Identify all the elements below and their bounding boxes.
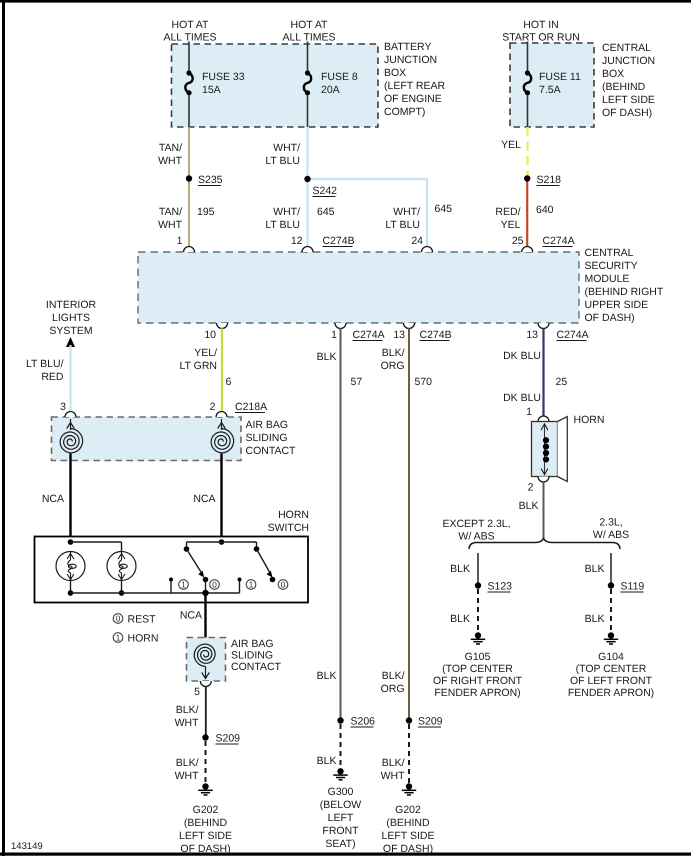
svg-text:BLK: BLK [585, 613, 605, 625]
pin 24 label [411, 235, 423, 247]
svg-text:7.5A: 7.5A [539, 84, 561, 96]
svg-text:AIR BAG: AIR BAG [231, 638, 274, 650]
svg-text:640: 640 [536, 204, 554, 216]
svg-text:HORN: HORN [574, 414, 605, 426]
svg-text:C274A: C274A [543, 235, 575, 247]
svg-text:OF DASH): OF DASH) [383, 843, 433, 855]
svg-text:OF ENGINE: OF ENGINE [384, 93, 442, 105]
label NCA lower [180, 610, 202, 622]
svg-text:FUSE 33: FUSE 33 [202, 71, 245, 83]
svg-text:LT BLU/: LT BLU/ [26, 358, 64, 370]
label G104 [568, 651, 654, 699]
fuse F11 [524, 70, 531, 95]
svg-text:DK BLU: DK BLU [503, 392, 541, 404]
svg-text:G300: G300 [328, 786, 354, 798]
wire BLK S123 to G105 [477, 589, 479, 632]
horn switch box [35, 537, 309, 603]
ground G202 left [198, 783, 212, 795]
svg-text:SEAT): SEAT) [325, 838, 355, 850]
label YEL/LT GRN + 6 [179, 347, 231, 388]
label 2.3L W/ ABS [593, 517, 629, 542]
horn coil symbol left [56, 552, 85, 581]
svg-text:S123: S123 [488, 581, 513, 593]
wire WHT/LT BLU branch S242 to pin24 [308, 178, 428, 247]
svg-text:1: 1 [177, 235, 183, 247]
svg-text:S209: S209 [418, 716, 443, 728]
label air bag sliding contact upper [246, 419, 297, 457]
svg-text:NCA: NCA [180, 610, 202, 622]
contact 0 right [270, 577, 276, 583]
contact 1 stub right [238, 578, 242, 594]
svg-text:HOT AT: HOT AT [172, 19, 210, 31]
wire TAN/WHT S235 to pin1 [188, 179, 190, 247]
svg-text:BLK/: BLK/ [382, 670, 405, 682]
module bottom pin bumps [217, 323, 550, 329]
label HORN [574, 414, 605, 426]
label central security module [585, 247, 664, 324]
ground G104 [604, 632, 618, 644]
contact 0 left [202, 577, 208, 597]
wire fuse 33 to box edge [188, 95, 190, 127]
label G202 left [179, 804, 232, 855]
svg-text:SLIDING: SLIDING [231, 650, 273, 662]
legend 0 REST [113, 614, 156, 626]
svg-text:BLK: BLK [317, 351, 337, 363]
svg-text:(BEHIND: (BEHIND [386, 817, 430, 829]
label BLK + 57 [317, 351, 363, 388]
junction dot left feed [68, 539, 74, 545]
junction dot right feed [219, 539, 225, 545]
svg-text:LT BLU: LT BLU [385, 219, 420, 231]
pin 3 label [60, 401, 66, 413]
wire BLK brace to S123 [477, 553, 479, 583]
splice S218 [524, 174, 561, 186]
ground G300 [333, 768, 347, 780]
svg-text:EXCEPT 2.3L,: EXCEPT 2.3L, [442, 518, 510, 530]
svg-text:LEFT: LEFT [328, 812, 354, 824]
wires horn coils to bus [68, 580, 125, 596]
svg-text:570: 570 [415, 376, 433, 388]
air bag sliding contact box lower [187, 638, 226, 682]
svg-text:C274B: C274B [420, 329, 452, 341]
air bag sliding contact box upper [52, 417, 242, 461]
svg-text:C274A: C274A [353, 329, 385, 341]
label BLK/WHT lower left [175, 757, 199, 782]
svg-text:OF DASH): OF DASH) [585, 312, 635, 324]
contact pin bumps upper [65, 412, 227, 418]
pin 1 label horn [526, 406, 532, 418]
svg-text:10: 10 [204, 329, 216, 341]
svg-text:BLK: BLK [450, 613, 470, 625]
svg-text:LT GRN: LT GRN [179, 360, 217, 372]
svg-text:HOT IN: HOT IN [523, 19, 558, 31]
label air bag sliding contact lower [231, 638, 282, 673]
wire YEL/LT GRN pin10 to contact [221, 328, 223, 411]
label BLK lower [317, 670, 337, 682]
svg-text:WHT: WHT [158, 155, 182, 167]
svg-text:13: 13 [526, 329, 538, 341]
splice S209 left [202, 733, 240, 745]
horn component [532, 417, 568, 482]
svg-text:CENTRAL: CENTRAL [585, 247, 634, 259]
ground G202 right [402, 783, 416, 795]
wire NCA right [220, 454, 222, 543]
svg-text:WHT: WHT [175, 770, 199, 782]
svg-text:FRONT: FRONT [322, 825, 359, 837]
svg-text:WHT/: WHT/ [273, 206, 300, 218]
svg-text:13: 13 [393, 329, 405, 341]
svg-text:BOX: BOX [602, 68, 624, 80]
label RED/YEL + 640 [495, 204, 553, 231]
label horn switch [268, 509, 309, 534]
svg-text:C218A: C218A [235, 401, 267, 413]
label HOT AT ALL TIMES (left) [163, 19, 216, 44]
svg-text:2.3L,: 2.3L, [599, 517, 622, 529]
sliding contact coil lower [194, 644, 215, 678]
svg-text:OF DASH): OF DASH) [180, 843, 230, 855]
svg-text:DK BLU: DK BLU [503, 350, 541, 362]
label BLK/WHT upper left [175, 704, 199, 729]
svg-text:REST: REST [128, 614, 157, 626]
svg-text:SWITCH: SWITCH [268, 522, 309, 534]
svg-text:SLIDING: SLIDING [246, 432, 288, 444]
svg-text:12: 12 [291, 235, 303, 247]
splice S123 [475, 581, 512, 593]
svg-text:FUSE 11: FUSE 11 [539, 71, 581, 83]
label G202 right [382, 804, 435, 855]
svg-text:HORN: HORN [128, 633, 159, 645]
switch top link right [187, 542, 260, 552]
svg-text:BLK: BLK [450, 563, 470, 575]
wire BLK/WHT contact to S209 [205, 687, 207, 738]
svg-text:S218: S218 [537, 174, 562, 186]
wire fuse 8 to box edge [307, 95, 309, 127]
svg-text:YEL: YEL [501, 219, 521, 231]
svg-text:5: 5 [194, 686, 200, 698]
switch arm left [184, 542, 205, 578]
svg-text:BLK: BLK [317, 755, 337, 767]
label EXCEPT 2.3L W/ ABS [442, 518, 510, 543]
svg-text:FUSE 8: FUSE 8 [321, 71, 358, 83]
svg-text:0: 0 [116, 614, 121, 624]
svg-text:195: 195 [197, 206, 215, 218]
horn pin bump bottom [538, 477, 549, 483]
svg-text:0: 0 [281, 580, 286, 590]
svg-text:WHT/: WHT/ [393, 206, 420, 218]
svg-text:S209: S209 [216, 733, 241, 745]
wire WHT/LT BLU S242 to pin12 [306, 179, 308, 247]
position label 1 right [246, 580, 256, 590]
svg-text:C274A: C274A [557, 329, 589, 341]
label YEL [501, 139, 521, 151]
svg-text:(LEFT REAR: (LEFT REAR [384, 80, 445, 92]
svg-text:S242: S242 [313, 185, 338, 197]
svg-text:BLK/: BLK/ [176, 757, 199, 769]
label BLK above G104 [585, 613, 605, 625]
label WHT/LT BLU upper [265, 142, 300, 167]
svg-text:HOT AT: HOT AT [291, 19, 329, 31]
label G300 [320, 786, 362, 850]
pin 13 label C274B bottom [393, 329, 451, 341]
svg-text:OF LEFT FRONT: OF LEFT FRONT [570, 675, 653, 687]
central security module box [138, 252, 579, 323]
module top pin bumps [184, 247, 533, 252]
label WHT/LT BLU pin24 + 645 [385, 203, 452, 231]
label battery junction box [384, 41, 445, 118]
svg-text:15A: 15A [202, 84, 221, 96]
label NCA right [193, 493, 215, 505]
svg-text:CONTACT: CONTACT [231, 661, 282, 673]
svg-text:FENDER APRON): FENDER APRON) [434, 687, 520, 699]
svg-text:OF RIGHT FRONT: OF RIGHT FRONT [433, 675, 523, 687]
wire YEL fuse11 to S218 [526, 127, 528, 176]
svg-text:S119: S119 [621, 581, 645, 593]
svg-text:MODULE: MODULE [585, 273, 630, 285]
sliding contact coil right [211, 419, 234, 453]
svg-text:2: 2 [210, 401, 216, 413]
arrow to interior lights system [66, 337, 75, 347]
svg-text:57: 57 [351, 376, 363, 388]
pin 12 label C274B top [291, 235, 355, 247]
pin 2 label C218A [210, 401, 267, 413]
svg-text:ORG: ORG [381, 683, 405, 695]
svg-text:1: 1 [116, 633, 121, 643]
sliding contact coil left [60, 419, 83, 453]
wire fuse 11 to box edge [527, 95, 529, 127]
svg-text:G104: G104 [598, 651, 624, 663]
svg-text:BLK: BLK [519, 500, 539, 512]
label interior lights system [46, 299, 97, 337]
label DK BLU + 25 [503, 350, 567, 404]
label BLK/ORG lower [381, 670, 405, 695]
svg-text:(TOP CENTER: (TOP CENTER [576, 663, 647, 675]
label FUSE 8 20A [321, 71, 358, 96]
horn pin bump top [538, 416, 549, 421]
svg-text:(TOP CENTER: (TOP CENTER [442, 663, 513, 675]
svg-text:LT BLU: LT BLU [265, 155, 300, 167]
svg-text:(BEHIND: (BEHIND [184, 817, 228, 829]
switch bus wire [71, 592, 240, 594]
wire feed into fuse 11 [527, 42, 529, 72]
pin 25 label C274A top [512, 235, 575, 247]
svg-text:UPPER SIDE: UPPER SIDE [585, 299, 649, 311]
svg-text:AIR BAG: AIR BAG [246, 419, 289, 431]
label BLK below horn [519, 500, 539, 512]
svg-text:CONTACT: CONTACT [246, 445, 297, 457]
svg-text:SYSTEM: SYSTEM [49, 325, 92, 337]
fuse F33 [185, 70, 192, 95]
wire BLK horn to brace [543, 482, 545, 539]
svg-text:WHT/: WHT/ [273, 142, 300, 154]
splice S209 right [406, 716, 443, 728]
wire feed into fuse 8 [307, 42, 309, 72]
svg-text:G105: G105 [465, 651, 491, 663]
svg-text:TAN/: TAN/ [159, 206, 182, 218]
svg-text:G202: G202 [395, 804, 421, 816]
svg-text:25: 25 [556, 376, 568, 388]
position label 0 left [210, 580, 220, 590]
svg-text:WHT: WHT [175, 717, 199, 729]
svg-text:RED: RED [41, 371, 64, 383]
svg-text:RED/: RED/ [495, 206, 520, 218]
svg-text:G202: G202 [193, 804, 219, 816]
svg-text:CENTRAL: CENTRAL [602, 42, 651, 54]
horn coil symbol right [107, 552, 136, 581]
wire BLK S119 to G104 [610, 589, 612, 632]
pin 13 label C274A bottom right [526, 329, 588, 341]
svg-text:1: 1 [181, 580, 186, 590]
svg-text:LIGHTS: LIGHTS [52, 312, 90, 324]
label HOT AT ALL TIMES (middle) [282, 19, 335, 44]
battery junction box [172, 44, 379, 127]
wire NCA left [69, 454, 71, 553]
label G105 [433, 651, 523, 699]
svg-text:0: 0 [212, 580, 217, 590]
position label 0 right [278, 580, 288, 590]
svg-text:TAN/: TAN/ [159, 142, 182, 154]
label FUSE 33 15A [202, 71, 245, 96]
label BLK above S119 [585, 563, 605, 575]
fuse F8 [304, 70, 311, 95]
svg-text:WHT: WHT [158, 219, 182, 231]
ground G105 [471, 632, 485, 644]
contact 1 stub left [169, 578, 173, 594]
svg-text:25: 25 [512, 235, 524, 247]
label central junction box [602, 42, 655, 119]
svg-text:BLK: BLK [585, 563, 605, 575]
svg-text:COMPT): COMPT) [384, 106, 425, 118]
svg-text:143149: 143149 [11, 841, 43, 852]
central junction box [510, 43, 594, 127]
label BLK/WHT right column [381, 757, 405, 782]
svg-text:ALL TIMES: ALL TIMES [163, 32, 216, 44]
wire TAN/WHT fuse33 to S235 [188, 127, 190, 179]
pin 5 label [194, 686, 200, 698]
svg-text:YEL/: YEL/ [194, 347, 217, 359]
svg-text:FENDER APRON): FENDER APRON) [568, 687, 654, 699]
pin 1 label C274A top [177, 235, 183, 247]
label BLK above G300 [317, 755, 337, 767]
wire LT BLU/RED [69, 345, 71, 412]
label TAN/WHT upper [158, 142, 182, 167]
svg-text:BLK/: BLK/ [176, 704, 199, 716]
wire link horns [71, 542, 122, 552]
svg-text:LT BLU: LT BLU [265, 219, 300, 231]
wire BLK S206 to G300 [340, 724, 342, 768]
legend 1 HORN [113, 633, 158, 645]
svg-text:645: 645 [435, 203, 453, 215]
svg-text:LEFT SIDE: LEFT SIDE [602, 94, 655, 106]
svg-text:C274B: C274B [323, 235, 355, 247]
label BLK above S123 [450, 563, 470, 575]
svg-text:S206: S206 [351, 716, 376, 728]
wire BLK/WHT S209 to G202 right [408, 724, 410, 783]
wire WHT/LT BLU fuse8 to S242 [306, 127, 308, 179]
svg-text:(BEHIND: (BEHIND [602, 81, 646, 93]
position label 1 left [179, 580, 189, 590]
svg-text:NCA: NCA [193, 493, 215, 505]
pin 2 label horn [528, 482, 534, 494]
svg-text:LEFT SIDE: LEFT SIDE [179, 830, 232, 842]
brace split to two grounds [469, 539, 620, 550]
svg-text:SECURITY: SECURITY [585, 260, 638, 272]
svg-text:HORN: HORN [278, 509, 309, 521]
svg-text:BLK: BLK [317, 670, 337, 682]
label BLK above G105 [450, 613, 470, 625]
svg-text:WHT: WHT [381, 770, 405, 782]
svg-text:W/ ABS: W/ ABS [593, 529, 629, 541]
svg-text:JUNCTION: JUNCTION [384, 54, 437, 66]
svg-text:START OR RUN: START OR RUN [502, 32, 580, 44]
wire RED/YEL S218 to pin25 [526, 182, 528, 247]
wire feed into fuse 33 [188, 42, 190, 72]
svg-text:(BEHIND RIGHT: (BEHIND RIGHT [585, 286, 664, 298]
svg-text:S235: S235 [198, 174, 223, 186]
sheet number 143149 [11, 841, 43, 852]
svg-text:24: 24 [411, 235, 423, 247]
label LT BLU/RED [26, 358, 64, 383]
svg-text:20A: 20A [321, 84, 340, 96]
contact pin bump lower [200, 681, 211, 687]
svg-text:2: 2 [528, 482, 534, 494]
svg-text:(BELOW: (BELOW [320, 799, 362, 811]
svg-text:BOX: BOX [384, 67, 406, 79]
label NCA left [42, 493, 64, 505]
svg-text:BLK/: BLK/ [382, 347, 405, 359]
svg-text:OF DASH): OF DASH) [602, 107, 652, 119]
svg-text:1: 1 [331, 329, 337, 341]
label HOT IN START OR RUN [502, 19, 580, 44]
switch arm right [257, 549, 273, 578]
svg-text:3: 3 [60, 401, 66, 413]
svg-text:INTERIOR: INTERIOR [46, 299, 97, 311]
splice S242 [304, 176, 337, 197]
svg-text:NCA: NCA [42, 493, 64, 505]
pin 10 label [204, 329, 216, 341]
svg-text:1: 1 [249, 580, 254, 590]
wire BLK brace to S119 [610, 553, 612, 583]
svg-text:LEFT SIDE: LEFT SIDE [382, 830, 435, 842]
splice S235 [186, 174, 223, 186]
svg-text:645: 645 [317, 206, 335, 218]
wire NCA switch to contact [204, 593, 206, 644]
wire BLK/WHT S209 to G202 left [205, 741, 207, 783]
svg-text:W/ ABS: W/ ABS [458, 531, 494, 543]
pin 1 label C274A bottom [331, 329, 384, 341]
label WHT/LT BLU pin12 + 645 [265, 206, 334, 231]
svg-text:YEL: YEL [501, 139, 521, 151]
svg-text:ALL TIMES: ALL TIMES [282, 32, 335, 44]
svg-text:ORG: ORG [381, 360, 405, 372]
wire BLK pin1 to S206 [340, 328, 342, 720]
wire DK BLU pin13 to horn [542, 328, 544, 416]
svg-text:JUNCTION: JUNCTION [602, 55, 655, 67]
svg-text:BLK/: BLK/ [382, 757, 405, 769]
svg-text:BATTERY: BATTERY [384, 41, 431, 53]
svg-text:6: 6 [226, 376, 232, 388]
label FUSE 11 7.5A [539, 71, 581, 96]
wire BLK/ORG pin13 to S209 [408, 328, 410, 720]
svg-text:1: 1 [526, 406, 532, 418]
label BLK/ORG + 570 [381, 347, 433, 388]
splice S206 [337, 716, 375, 728]
label TAN/WHT lower + 195 [158, 206, 215, 231]
splice S119 [608, 581, 645, 593]
